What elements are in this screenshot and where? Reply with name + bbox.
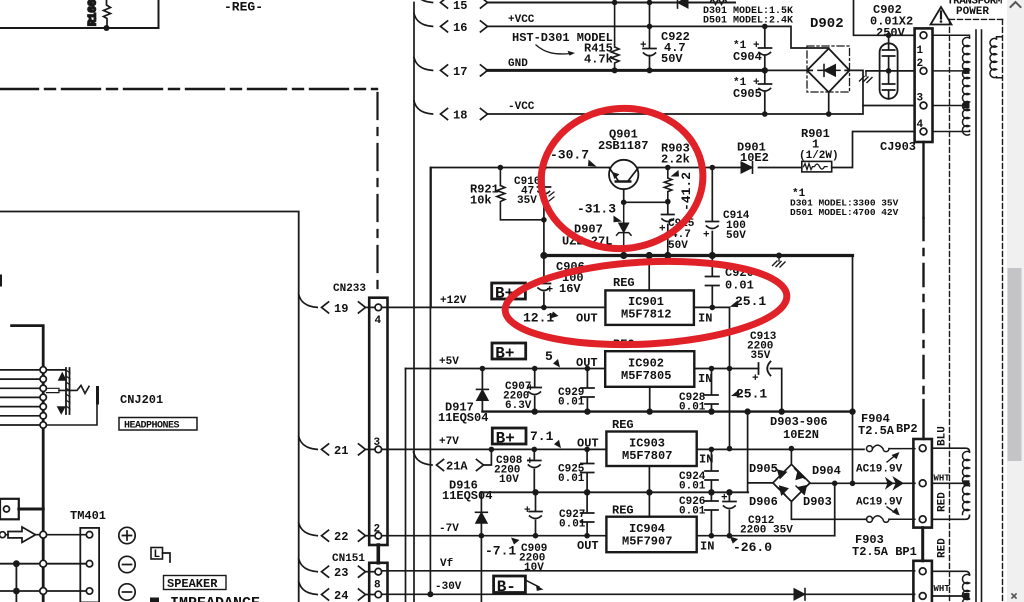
wire bridge bottom to F903 row (791, 502, 866, 520)
svg-text:50V: 50V (726, 230, 746, 242)
transformer dashed outline (950, 18, 1003, 20)
svg-text:16: 16 (453, 21, 467, 35)
svg-text:BP2: BP2 (896, 422, 918, 436)
wire bridge right to BP2 pin2 (810, 482, 915, 484)
pin circle 19/4 (375, 304, 382, 311)
svg-text:10E2N: 10E2N (783, 428, 819, 442)
svg-text:D903: D903 (803, 495, 832, 509)
wire box to bus thick (19, 508, 43, 511)
capacitor C904 (733, 26, 772, 70)
svg-text:WHT: WHT (934, 584, 951, 594)
svg-text:B+: B+ (495, 345, 514, 363)
wire +12V rail (382, 306, 730, 308)
svg-text:10V: 10V (524, 562, 544, 574)
svg-text:-VCC: -VCC (508, 101, 535, 113)
wire +VCC rail (487, 26, 829, 48)
svg-text:CJ903: CJ903 (880, 140, 916, 154)
wire GND rail thick (487, 69, 765, 72)
svg-text:SPEAKER: SPEAKER (167, 577, 218, 591)
diode D300 top (678, 0, 689, 8)
svg-text:-31.3: -31.3 (577, 202, 616, 217)
regulator IC902 (576, 338, 712, 412)
svg-text:+12V: +12V (440, 295, 467, 307)
node C904 top (762, 24, 768, 30)
capacitor C916 (514, 168, 554, 220)
svg-text:12.1: 12.1 (523, 311, 554, 326)
wire IN collector vertical x729 (729, 307, 731, 448)
svg-text:WHT: WHT (934, 474, 951, 484)
svg-text:22: 22 (334, 530, 348, 544)
connector BP1 (913, 561, 932, 602)
pin 23 row (299, 559, 375, 581)
node R415 top (612, 0, 618, 5)
svg-text:REG: REG (613, 276, 635, 290)
capacitor C929 (558, 369, 594, 412)
resistor R166 (88, 0, 111, 28)
pin 21 row (299, 436, 375, 458)
node R903 top (665, 165, 671, 171)
svg-text:19: 19 (334, 302, 348, 316)
diode D916 (442, 479, 492, 536)
wire bus thick (544, 254, 853, 257)
node junction R166 (104, 25, 110, 31)
svg-text:TM401: TM401 (70, 509, 106, 523)
node rail492 junctions (532, 489, 538, 495)
svg-text:RED: RED (937, 492, 949, 512)
svg-text:M5F7812: M5F7812 (621, 308, 671, 322)
wire BP2-BP1 link (921, 528, 924, 561)
capacitor C920 (706, 256, 754, 308)
svg-text:AC19.9V: AC19.9V (856, 464, 903, 476)
label B- box (494, 576, 544, 596)
svg-text:(1/2W): (1/2W) (799, 150, 839, 162)
terminal minus symbol 1 (119, 556, 135, 572)
transformer secondary winding BP1 (963, 574, 970, 602)
wire bridge right to IC904 IN (834, 483, 836, 535)
headphone jack bus wire (12, 326, 44, 602)
svg-text:3: 3 (374, 437, 381, 449)
wire rail 492 (481, 491, 748, 493)
arrow WHT wire (886, 477, 903, 489)
capacitor C912 (721, 492, 793, 536)
svg-text:2: 2 (374, 524, 381, 536)
wire top rail (487, 2, 735, 4)
terminal plus symbol (119, 527, 135, 543)
node +5V rail junctions (480, 366, 486, 372)
svg-text:REG: REG (612, 418, 634, 432)
svg-text:0.01: 0.01 (679, 402, 706, 414)
bus wire vertical x430 (429, 168, 431, 595)
svg-text:AC19.9V: AC19.9V (856, 497, 903, 509)
svg-text:B+: B+ (496, 430, 515, 448)
label B+ box 12V (492, 283, 526, 303)
svg-text:10V: 10V (499, 474, 519, 486)
transformer secondary winding top (990, 37, 1002, 78)
svg-text:BLU: BLU (937, 426, 949, 446)
svg-text:0.01: 0.01 (558, 397, 585, 409)
svg-text:11EQS04: 11EQS04 (442, 489, 492, 503)
node rail411 junctions (532, 408, 538, 414)
svg-text:+: + (527, 383, 534, 395)
svg-text:+: + (752, 373, 759, 385)
svg-text:+5V: +5V (439, 356, 459, 368)
capacitor C925 (558, 449, 594, 492)
label HEADPHONES boxed (119, 418, 197, 432)
svg-text:C904: C904 (733, 50, 762, 64)
svg-text:24: 24 (334, 589, 348, 602)
svg-text:T2.5A BP1: T2.5A BP1 (852, 545, 917, 559)
svg-text:M5F7907: M5F7907 (622, 535, 672, 549)
connector CJ903 (880, 28, 933, 154)
resistor R903 (661, 142, 690, 202)
node -7V rail junctions (479, 533, 485, 539)
wire BP2 pin1 to winding (932, 448, 970, 452)
wire rail 411 (482, 410, 852, 412)
svg-text:21A: 21A (446, 460, 468, 474)
svg-text:3: 3 (917, 93, 924, 105)
pin circle 23/8 (375, 568, 382, 575)
svg-text:15: 15 (453, 0, 467, 13)
circuit block outline left (0, 212, 299, 602)
transistor Q901 (598, 128, 648, 203)
pin circle 24 (375, 591, 382, 598)
svg-text:5: 5 (545, 349, 553, 364)
svg-text:-41.2: -41.2 (679, 172, 694, 211)
node C914 top (710, 165, 716, 171)
wire left stub vertical (15, 564, 17, 602)
svg-text:B-: B- (497, 578, 516, 596)
resistor R415 (584, 3, 619, 71)
capacitor C926 (679, 492, 718, 535)
node -30V bus junction (427, 591, 433, 597)
svg-text:REG: REG (612, 504, 634, 518)
wire CJ903 pin3 row (863, 105, 915, 107)
ground bus symbol (773, 256, 786, 268)
wire +7V rail (382, 448, 864, 450)
pin circle 21/3 (375, 446, 382, 453)
pin 17 row GND (414, 57, 528, 79)
wire bridge bottom to -VCC (828, 92, 830, 114)
wire -30V rail (382, 593, 915, 595)
svg-text:IN: IN (700, 540, 714, 554)
jack CNJ201 body (46, 368, 97, 425)
node C904 bottom (762, 67, 768, 73)
wire rail to WHT row (852, 412, 854, 484)
svg-text:CNJ201: CNJ201 (120, 393, 163, 407)
svg-text:GND: GND (508, 58, 528, 70)
node R415 bottom (612, 67, 618, 73)
svg-text:+VCC: +VCC (508, 14, 535, 26)
boundary dash-dot line horizontal (0, 88, 377, 90)
wire BP2 pin2 (932, 482, 964, 484)
svg-text:IN: IN (698, 372, 712, 386)
capacitor C902 dual (870, 3, 913, 99)
svg-text:-REG-: -REG- (224, 0, 263, 15)
component box left edge (0, 499, 19, 520)
wire CJ903 pin1 row (854, 0, 915, 35)
svg-text:C905: C905 (733, 87, 762, 101)
svg-text:D905: D905 (749, 462, 778, 476)
svg-text:1: 1 (917, 45, 924, 57)
scrollbar corner mark (1012, 594, 1016, 598)
svg-text:21: 21 (334, 444, 348, 458)
wire CJ903 stem dashdot (922, 142, 924, 218)
capacitor C927 (559, 492, 594, 535)
svg-text:17: 17 (453, 65, 467, 79)
pin 16 row +VCC (414, 13, 535, 35)
terminal minus symbol 2 (119, 584, 135, 600)
wire rail corner x431 (430, 168, 432, 308)
pin 22 row (299, 523, 375, 545)
annotation red circle Q901 (534, 100, 710, 256)
svg-text:2: 2 (917, 58, 924, 70)
pin 19 row (299, 294, 375, 316)
bridge rectifier D902 (807, 49, 850, 93)
wire rail492 to bridge (748, 412, 773, 493)
scrollbar thumb (1008, 268, 1022, 461)
svg-text:D904: D904 (812, 464, 841, 478)
svg-text:2SB1187: 2SB1187 (598, 139, 648, 153)
wire BP2 pin3 to winding (932, 516, 970, 520)
connector CN233 (369, 298, 387, 545)
regulator IC901 (576, 256, 712, 326)
wire -VCC rail (487, 70, 863, 114)
svg-text:OUT: OUT (577, 539, 599, 553)
svg-text:25.1: 25.1 (735, 294, 766, 309)
wire -7V rail (382, 535, 835, 537)
connector BP2 (913, 439, 932, 528)
svg-text:11EQS04: 11EQS04 (438, 411, 488, 425)
annotation red circle IC901 (503, 255, 789, 352)
wire TM401 row3 (0, 590, 85, 592)
capacitor C909 (519, 492, 547, 574)
svg-text:23: 23 (334, 566, 348, 580)
svg-text:25.1: 25.1 (736, 387, 767, 402)
wire C916 to bus (543, 220, 545, 256)
svg-text:-7V: -7V (439, 523, 459, 535)
svg-text:10k: 10k (470, 194, 492, 208)
wire BP1 pin1 to winding (932, 571, 970, 575)
svg-text:Vf: Vf (440, 558, 454, 570)
svg-text:4.7k: 4.7k (584, 53, 613, 67)
svg-text:IMPEADANCE: IMPEADANCE (170, 595, 260, 602)
svg-text:0.01: 0.01 (679, 481, 706, 493)
wire +5V rail (406, 369, 782, 413)
warning triangle (931, 7, 952, 25)
svg-text:2.2k: 2.2k (661, 153, 690, 167)
capacitor C924 (679, 449, 718, 492)
wire CJ903 pin2 row (866, 70, 915, 72)
label B+ box 7V (492, 428, 526, 448)
capacitor C914 (703, 168, 750, 256)
scrollbar track (1007, 0, 1024, 602)
wire connector link (376, 545, 380, 563)
pin 18 row -VCC (414, 101, 535, 123)
pin 21A row (414, 449, 492, 473)
node C922 junctions (647, 0, 653, 5)
svg-text:10E2: 10E2 (740, 151, 769, 165)
label SPEAKER boxed (164, 576, 227, 592)
svg-text:D903-906: D903-906 (770, 415, 828, 429)
svg-text:16V: 16V (559, 282, 581, 296)
node C905 bottom (762, 111, 768, 117)
svg-text:D501 MODEL:2.4K: D501 MODEL:2.4K (703, 16, 793, 27)
svg-text:M5F7805: M5F7805 (621, 369, 671, 383)
svg-text:IN: IN (698, 312, 712, 326)
svg-text:+: + (527, 456, 534, 468)
svg-text:HEADPHONES: HEADPHONES (124, 421, 180, 432)
svg-text:D902: D902 (810, 16, 844, 32)
capacitor C908 (494, 449, 541, 492)
svg-text:+: + (524, 505, 531, 517)
wire bus right corner down (852, 256, 854, 412)
wire GND to bridge (765, 69, 812, 71)
connector CN151 (369, 563, 387, 602)
svg-text:OUT: OUT (576, 312, 598, 326)
wire top-left horizontal (0, 0, 159, 28)
fusible resistor R901 (799, 127, 839, 172)
svg-text:7.1: 7.1 (530, 429, 554, 444)
svg-text:-30V: -30V (435, 581, 462, 593)
arrow HST callout (536, 45, 571, 54)
svg-text:-7.1: -7.1 (485, 544, 516, 559)
label L boxed (151, 548, 170, 563)
svg-text:50V: 50V (668, 240, 688, 252)
svg-text:T2.5A: T2.5A (858, 424, 895, 438)
svg-text:D906: D906 (749, 495, 778, 509)
transformer core lines (976, 30, 982, 602)
svg-text:+: + (547, 285, 554, 297)
boundary dashed line vertical (376, 93, 378, 297)
wire TM401 row2 (0, 563, 85, 565)
svg-text:35V: 35V (751, 350, 771, 362)
node C916 junctions (541, 165, 547, 171)
resistor R921 (470, 168, 544, 220)
diode D917 (438, 369, 488, 425)
regulator IC904 (577, 492, 714, 553)
svg-text:RED: RED (937, 538, 949, 558)
svg-text:0.01: 0.01 (679, 506, 706, 518)
svg-text:POWER: POWER (956, 6, 989, 18)
svg-text:0.01: 0.01 (558, 473, 585, 485)
wire base junction row (624, 201, 668, 203)
svg-text:2200 35V: 2200 35V (740, 525, 793, 537)
node R921 top (498, 165, 504, 171)
wire Vf rail (382, 570, 915, 572)
capacitor C913 (747, 331, 777, 385)
svg-text:6.3V: 6.3V (505, 400, 532, 412)
bridge rectifier D902 dashed box (807, 46, 850, 92)
svg-text:CN151: CN151 (332, 553, 365, 565)
svg-text:0.01: 0.01 (725, 279, 754, 293)
svg-text:18: 18 (453, 109, 467, 123)
svg-text:50V: 50V (661, 52, 683, 66)
fuse F904 (858, 412, 918, 452)
capacitor C915 (659, 202, 695, 256)
pin 24 row (299, 582, 375, 602)
jack CNJ201 contacts (40, 367, 46, 429)
node bus junctions (540, 252, 547, 259)
transformer primary winding top (933, 35, 970, 135)
svg-text:-30.7: -30.7 (550, 148, 589, 163)
svg-text:35V: 35V (517, 195, 537, 207)
svg-text:M5F7807: M5F7807 (622, 449, 672, 463)
svg-text:D501 MODEL:4700 42V: D501 MODEL:4700 42V (790, 207, 899, 218)
diode D901 (737, 141, 769, 174)
wire bridge top to fuse row (790, 449, 792, 465)
bridge rectifier D903-906 (749, 462, 841, 509)
svg-text:+: + (721, 493, 728, 505)
pin circle left edge (0, 532, 6, 538)
wire stub left edge (0, 276, 2, 286)
pin circle 22/2 (375, 532, 382, 539)
svg-text:L: L (154, 549, 161, 561)
fuse F903 (852, 516, 917, 559)
svg-text:4: 4 (375, 315, 382, 327)
ground symbol C902 (860, 71, 873, 83)
svg-text:CN233: CN233 (333, 283, 366, 295)
capacitor C907 (503, 369, 541, 413)
wire Q901 rail (431, 132, 915, 168)
bus wire vertical x414 (413, 3, 415, 602)
svg-text:4: 4 (917, 119, 924, 131)
resistor R414 top (708, 0, 729, 5)
headphone feed wires (0, 370, 40, 425)
black mark bottom (150, 598, 159, 602)
regulator IC903 (577, 418, 713, 492)
svg-text:+7V: +7V (439, 436, 459, 448)
terminal block TM401 (70, 509, 106, 602)
diode D918 (794, 589, 805, 600)
arrow symbol outline (8, 527, 36, 542)
svg-text:R166: R166 (88, 0, 100, 26)
wire TM401 row1 (6, 534, 86, 536)
capacitor C928 (679, 369, 718, 414)
pin 15 row (414, 0, 488, 13)
scrollbar up arrow (1011, 2, 1021, 7)
capacitor C922 (640, 3, 690, 71)
svg-text:250V: 250V (876, 26, 906, 40)
svg-text:+: + (640, 40, 647, 52)
capacitor C905 (733, 70, 772, 114)
label B+ box 5V (492, 343, 526, 363)
zener diode D907 (562, 202, 631, 255)
node +7V rail junctions (489, 447, 495, 453)
svg-text:+: + (703, 230, 710, 242)
svg-text:8: 8 (374, 580, 381, 592)
capacitor C906 (538, 256, 585, 308)
svg-text:-26.0: -26.0 (733, 540, 772, 555)
bus wire vertical x404 (405, 369, 407, 602)
wire BP1 pin2 to winding (932, 595, 964, 597)
transformer secondary winding BP2 (962, 451, 969, 514)
wire vertical x482 lower (480, 536, 482, 602)
svg-text:0.01: 0.01 (559, 519, 586, 531)
